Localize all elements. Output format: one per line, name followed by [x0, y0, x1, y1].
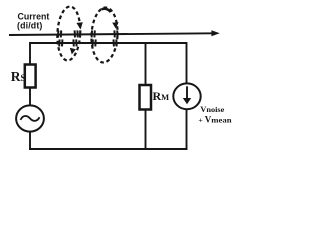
wire bottom of loop: [29, 148, 188, 150]
flux loop 2 solid top arc: [102, 9, 111, 12]
noise source arrow: [186, 86, 188, 99]
svg-text:(di/dt): (di/dt): [17, 20, 42, 30]
flux loop 2 (dashed ellipse): [90, 7, 119, 63]
flux loop 2 wire crossing ticks: [92, 30, 118, 46]
wire RM branch upper: [145, 43, 147, 86]
resistor RM: [140, 85, 152, 110]
wire left branch lower: [29, 131, 31, 150]
flux loop 1 arrowhead top-right: [76, 22, 82, 29]
wire left branch middle: [29, 88, 31, 106]
flux loop 2 arrowhead right: [112, 22, 118, 28]
wire RM branch lower: [145, 110, 147, 151]
label Vnoise + Vmean: [198, 104, 231, 124]
flux loop 1 wire crossing ticks: [58, 30, 78, 46]
wire main current conductor with arrow: [9, 33, 213, 35]
wire right branch upper: [186, 42, 188, 83]
AC source sine symbol: [21, 116, 40, 121]
resistor Rs: [25, 65, 36, 88]
svg-text:+ Vmean: + Vmean: [198, 114, 231, 124]
wire top of measuring loop: [30, 42, 187, 44]
arrowhead of current conductor: [211, 30, 219, 36]
flux loop 1 (dashed ellipse): [56, 6, 82, 61]
label Current (di/dt): [17, 12, 49, 31]
wire left branch upper: [29, 42, 31, 65]
svg-text:Vnoise: Vnoise: [200, 104, 224, 114]
noise source circle: [173, 83, 200, 109]
AC source circle: [16, 105, 44, 131]
wire right branch lower: [186, 110, 188, 150]
svg-text:RM: RM: [153, 89, 170, 103]
flux loop 1 arrowhead bottom: [70, 48, 76, 55]
